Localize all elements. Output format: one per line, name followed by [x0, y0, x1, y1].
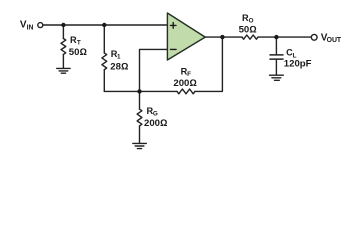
svg-text:50Ω: 50Ω [69, 47, 87, 58]
junction node input/R1 [102, 23, 106, 27]
svg-text:IN: IN [27, 25, 34, 32]
ground below CL [270, 75, 284, 80]
svg-text:120pF: 120pF [284, 58, 312, 69]
wire op-amp output rail [205, 36, 311, 38]
svg-text:1: 1 [117, 54, 121, 61]
capacitor CL plates [270, 55, 283, 59]
wire RG column [139, 91, 141, 142]
svg-text:28Ω: 28Ω [110, 62, 128, 73]
resistor RF [177, 89, 195, 94]
svg-text:OUT: OUT [327, 37, 342, 44]
svg-text:G: G [153, 111, 158, 118]
wire RT column [62, 25, 64, 68]
wire CL bottom lead [275, 60, 277, 75]
resistor R1 [102, 53, 107, 70]
node VOUT output terminal [311, 34, 317, 40]
wire inverting input branch [140, 49, 168, 91]
junction node output/CL [274, 35, 278, 39]
junction node output/feedback [220, 35, 224, 39]
junction node RG/feedback [137, 89, 141, 93]
svg-text:200Ω: 200Ω [144, 118, 167, 129]
svg-text:50Ω: 50Ω [239, 24, 257, 35]
svg-text:200Ω: 200Ω [173, 78, 196, 89]
op-amp U1 triangle [167, 13, 205, 60]
node VIN input terminal [38, 23, 43, 28]
wire top rail VIN to op-amp noninverting input [43, 24, 167, 26]
ground below RG [133, 143, 147, 148]
op-amp plus sign [170, 23, 176, 29]
wire CL top lead [275, 37, 277, 54]
resistor RT [61, 39, 66, 55]
resistor RG [137, 109, 142, 126]
wire R1 column [103, 25, 105, 91]
svg-text:T: T [77, 40, 81, 47]
ground below RT [57, 68, 70, 73]
resistor RO [242, 35, 258, 39]
junction node input/RT [61, 23, 65, 27]
wire feedback bottom rail [104, 37, 222, 91]
op-amp minus sign [171, 48, 177, 50]
